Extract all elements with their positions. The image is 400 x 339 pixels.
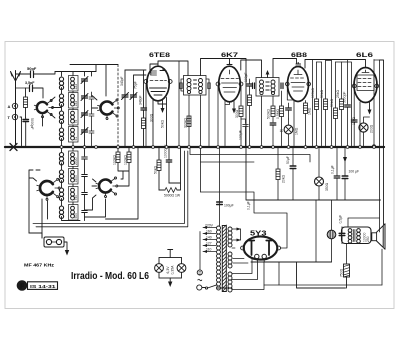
lamp 200 [359,123,368,132]
svg-text:50kΩ: 50kΩ [320,90,324,98]
wire array v7 [341,62,343,99]
resistor 300k [187,116,191,127]
tube 6K7 envelope [219,66,241,102]
arrowhead lamps [168,282,172,288]
wire T2 bottoms [262,96,274,146]
tube 6B8 pin left [286,82,290,86]
transformer secondary fil1 [228,252,232,268]
logo box [28,282,58,290]
svg-text:6B8: 6B8 [291,52,308,59]
ground bus wire [5,146,384,148]
wire 50k to bus [143,129,145,146]
wire trimmer column [84,81,86,146]
wire bus end corner [380,60,384,225]
transformer secondary fil2 [228,272,232,292]
svg-text:110: 110 [206,248,212,252]
svg-text:500: 500 [74,213,78,219]
ground symbol [10,144,17,151]
wire OT bottom [346,244,348,265]
wire 100uF right [344,162,346,200]
capacitor 50uF [290,166,296,169]
T2 primary coil [260,80,264,95]
wire a8 low [347,107,349,146]
mechanical link dashed [117,65,119,148]
tube 6K7 pin left [216,82,220,86]
svg-text:6,3V: 6,3V [166,266,170,274]
wire lamp [288,119,290,146]
tube 6TE8 cathode arrow [162,101,164,109]
svg-text:100 μF: 100 μF [349,170,360,174]
tube 6K7 inner [221,70,239,92]
trimmer 75pF [130,93,137,100]
capacitor bank col4 [89,92,94,146]
svg-text:6K7: 6K7 [221,52,239,59]
coil box L2c [69,110,79,126]
resistor 100k [248,95,252,106]
wire rail 162 [201,161,255,163]
output transformer core [353,230,355,242]
dial lamp right [177,264,186,273]
T1 cap left [180,83,182,89]
wire array v4 [325,61,327,100]
wire array v3 [321,62,323,146]
coil box L4d [69,205,79,221]
field arrow [344,147,346,157]
logo ring [17,281,26,290]
wire resistor [25,88,27,118]
wire a7 low [341,110,343,146]
coil unit enclosure [33,151,188,227]
svg-text:50kΩ: 50kΩ [161,120,165,128]
wire cap low [168,147,170,183]
AC rail [199,232,201,270]
wire 6TE8 cathode legs [144,64,159,146]
antenna [11,71,21,146]
coil box L4a [69,151,79,167]
svg-text:0,1μF: 0,1μF [247,201,251,210]
coil L3a [59,153,63,166]
svg-text:750Ω: 750Ω [340,268,344,277]
wire T2 sec to 6B8 cap [273,59,297,78]
wire B plus rail [246,147,381,200]
arrow HT b [237,239,242,242]
wire below-bus rails [190,147,310,226]
resistor 1M [304,103,308,114]
capacitor 100uF cathode [241,119,248,146]
coil L1c [59,111,63,124]
tube 5Y3 side pin right [277,246,281,250]
T1 core [194,80,197,88]
wire S2a left [29,170,40,233]
transformer core [222,225,226,292]
svg-text:0,5MΩ: 0,5MΩ [276,108,280,119]
svg-text:100μF: 100μF [239,130,243,140]
svg-text:100kΩ: 100kΩ [311,88,315,98]
band switch S1a [34,100,53,118]
svg-text:500kΩ: 500kΩ [267,109,271,119]
wire array v2 [316,62,318,99]
tube 5Y3 plate left [249,241,254,256]
wire 6L6 legs [354,88,360,146]
svg-text:50μF: 50μF [286,156,290,164]
resistor 0,5M [280,106,284,117]
capacitor 100uF psu [217,202,223,205]
tube 6TE8 dashes [150,80,167,82]
wire HT mid [232,229,241,248]
T1 cap right [208,83,210,89]
tube 6B8 envelope [288,67,309,102]
wire S2b links [85,179,122,217]
coil box L2b [69,93,79,109]
svg-text:350Ω: 350Ω [325,182,329,191]
svg-text:10: 10 [280,129,284,133]
lamp eye [284,125,293,134]
wire array v9 [317,61,352,146]
trimmer Ca [81,77,88,84]
speaker cone [377,224,385,249]
wire OT feed [348,218,380,227]
wire S2a drop [42,199,48,238]
wire cathode out [251,259,346,288]
svg-text:349pF: 349pF [139,95,143,105]
arrowhead [368,110,372,115]
band switch S1b [98,99,120,120]
svg-text:300Ω: 300Ω [235,109,239,118]
wire 50pF to coil bank [34,72,56,75]
trimmer Cb [81,94,88,101]
svg-text:1MΩ: 1MΩ [295,127,299,135]
output transformer secondary [357,229,361,243]
AC tilde [198,279,202,281]
svg-text:127: 127 [206,242,212,246]
tube 5Y3 plate right [266,241,271,256]
wire 5000 [159,147,181,190]
svg-text:5000Ω 1W: 5000Ω 1W [164,194,181,198]
svg-text:343pF: 343pF [120,76,124,86]
svg-text:0,35A: 0,35A [171,265,175,275]
tube 5Y3 filament pin a [255,254,259,258]
coil box L4c [69,187,79,203]
svg-text:100kΩ: 100kΩ [113,155,117,165]
wire 20k [277,147,279,200]
svg-text:1MΩ: 1MΩ [308,107,312,115]
wire cap to bus [25,118,27,146]
resistor a4 [324,99,328,110]
svg-text:200Ω: 200Ω [370,124,374,133]
capacitor electrolytic circle [327,230,336,239]
tube 6B8 inner [291,70,306,91]
svg-text:220V: 220V [205,224,214,228]
wire 01uF [336,147,338,200]
wire coil column 2 [72,91,74,146]
power switch [202,285,232,290]
resistor 5000 1W [165,188,177,193]
tube 6L6 inner [357,70,374,91]
wire 6TE8 plate down [158,98,167,146]
wire 750 down [346,277,348,288]
transformer primary winding [217,226,221,290]
dial lamp left [155,264,164,273]
IF transformer T1 box [184,76,207,96]
band switch S2b [96,177,118,198]
resistor a6 [334,108,338,119]
svg-text:25kΩ: 25kΩ [336,90,340,98]
terminal T [12,114,17,119]
resistor input [24,97,28,108]
wire 1M [305,101,307,146]
svg-text:6TE8: 6TE8 [149,52,171,59]
tube 5Y3 filament pin b [262,254,266,258]
resistor a7 [340,99,344,110]
wire A to 3.5pF [16,88,30,106]
resistor 20k [276,169,280,180]
capacitor col low a [82,147,88,221]
wire lamp feed [168,250,173,258]
coil L1b [59,94,63,107]
output transformer box [342,227,372,244]
wire capk [353,122,355,146]
capacitor 100uF grid [247,84,253,86]
wire resistor bank [118,147,129,186]
T2 secondary coil [271,80,275,95]
tube 6TE8 envelope [147,66,169,101]
resistor a2 [315,99,319,110]
capacitor 50pF [31,71,34,78]
svg-text:250: 250 [366,236,370,242]
tube 6TE8 pin left [144,80,148,84]
coil box L2d [69,127,79,143]
tube 6L6 pin right [375,84,379,88]
wire fil bottom [232,285,382,290]
wire a2 low [316,110,318,146]
wire to bus [272,125,274,146]
wire 500k down [272,117,274,123]
svg-text:300kΩ: 300kΩ [184,118,188,128]
capacitor 5000pF [270,123,276,125]
arrowhead [232,109,236,114]
tube 6TE8 pin right [168,80,172,84]
T2 cap left [253,83,255,89]
T1 primary coil [187,79,191,94]
capacitor 01uF [334,176,340,178]
coil L3c [59,188,63,201]
AC plug earth [197,270,202,275]
tube 6TE8 anode detail [150,69,167,96]
T2 core [266,82,269,90]
arrow HT a [237,228,242,231]
AC plug live [197,285,202,290]
svg-text:A: A [8,104,11,109]
svg-text:100μF: 100μF [224,204,234,208]
wire T1 tops [201,59,247,146]
svg-text:100kΩ: 100kΩ [124,155,128,165]
wire phono [29,233,67,250]
coil box L4b [69,169,79,185]
wire 100k to bus [249,106,251,146]
wire HT to 5Y3 [232,229,241,240]
svg-text:6L6: 6L6 [356,52,374,59]
wire coil column 1 [61,88,63,146]
coil L3d [59,206,63,219]
wire right col2 [374,60,380,232]
tube 6L6 cathode arrow [369,103,371,110]
tube 6TE8 grid detail [151,71,157,75]
speaker driver [372,233,377,241]
svg-text:50kΩ: 50kΩ [330,99,334,107]
wire lamp350 [318,147,320,200]
wire 50k low [158,147,160,190]
svg-text:2000: 2000 [74,157,78,165]
wire a6 low [335,119,337,146]
output transformer primary [348,229,352,243]
wire fil to 5Y3 [232,259,279,286]
tube 6B8 top cap [296,63,301,67]
wire array v1 [312,60,314,146]
svg-text:0,1μF: 0,1μF [331,165,335,174]
resistor 50k [142,118,146,129]
arrowhead up [266,70,270,75]
svg-text:IS 14-31: IS 14-31 [30,284,56,289]
tube 6K7 top cap [227,63,232,67]
svg-text:750: 750 [74,195,78,201]
junction [373,145,376,148]
resistor bank r2 [127,152,131,163]
svg-text:F: F [20,283,25,290]
svg-text:5000pF: 5000pF [30,118,34,130]
power transformer primary taps [203,226,216,253]
wire 300 [240,86,242,146]
tube 6K7 pin right [239,82,243,86]
lamp 350 [315,177,324,186]
svg-text:140: 140 [206,236,212,240]
wire array v6 [335,62,337,108]
arrowhead [161,108,165,113]
svg-text:50pF: 50pF [27,66,37,71]
wire 0,5M [281,91,283,146]
T2 cap right [281,83,283,89]
wire 50uF [292,147,294,200]
wire coil col2 low [72,147,74,205]
svg-text:100pF: 100pF [244,72,248,82]
tube 6TE8 top lead [158,61,188,76]
wire right col1 [373,60,375,146]
capacitor 0,5uF plates [339,233,345,235]
tube 6L6 pin left [352,84,356,88]
wire array v5 [331,61,333,146]
switch contact [205,287,207,289]
capacitor 349pF [141,108,147,110]
svg-text:MF 467 KHz: MF 467 KHz [24,263,55,268]
wire lamp down [169,278,171,282]
svg-text:5000pF: 5000pF [343,92,347,104]
wire inner box [85,147,139,219]
phono jack [44,237,64,247]
wire array v8 [347,60,349,105]
tube 6L6 envelope [354,68,377,103]
wire switch S1a to S1b [43,96,98,127]
wire 349pF column [143,70,145,118]
trimmer 343pF [122,93,129,100]
capacitor 5000pF [23,120,29,122]
IF transformer T2 box [256,78,279,97]
terminal T dot [14,116,16,118]
arrowhead phono [65,250,69,256]
resistor 50k low [157,160,161,171]
svg-text:20kΩ: 20kΩ [282,175,286,183]
trimmer Cc [81,111,88,118]
coil box L2a [69,76,79,92]
capacitor 3,5pF [30,85,33,92]
wire 75pF [125,70,146,146]
wire 6B8 legs [287,86,294,146]
tube 5Y3 side pin left [241,246,245,250]
wire T2 to 6K7 plate [241,60,262,78]
capacitor 5000pF b [286,108,292,110]
capacitor 100uF right [342,176,348,179]
wire electrolytic [331,200,333,262]
wire T down [20,117,22,146]
bus junctions [60,146,63,149]
wire T1 bottoms [181,79,209,146]
transformer secondary HT [228,227,232,247]
capacitor 0,5uF [339,227,345,244]
terminal A [12,103,17,108]
wire upper rail [70,65,118,97]
wire 6B8 plate top [305,60,366,69]
svg-text:3,5pF: 3,5pF [25,81,35,85]
resistor 500k [271,106,275,117]
trimmer Cd [81,128,88,135]
tube 5Y3 envelope [244,236,278,259]
T1 secondary coil [199,79,203,94]
resistor 750 [344,264,350,277]
svg-text:Irradio - Mod. 60 L6: Irradio - Mod. 60 L6 [71,271,150,282]
tube 6K7 cathode arrow [233,102,235,109]
svg-text:1500: 1500 [74,175,78,183]
wire 343pF [124,70,126,146]
coil L1d [59,128,63,141]
wire lamp200 [364,117,370,146]
capacitor 10000 low [166,160,171,162]
capacitor a8 [345,105,351,107]
terminal A dot [14,105,16,107]
wire coil bank top rail [55,72,96,77]
svg-text:50kΩ: 50kΩ [154,166,158,174]
wire screen rail low [315,200,317,262]
wire cap col [249,79,251,95]
wire cap b [288,103,290,119]
wire grid return [145,84,147,146]
coil L1a [59,77,63,90]
capacitor 6L6k [351,120,357,122]
resistor bank r1 [116,152,120,163]
wire 3.5pF to switch [33,88,44,98]
wire speaker return [381,249,383,285]
svg-text:0,5μF: 0,5μF [339,215,343,224]
svg-text:160: 160 [206,230,212,234]
wire coil col1 low [62,147,81,221]
wire 6K7 legs [218,86,230,146]
dial lamp box [159,258,182,279]
wire staircase to 5Y3 [201,192,288,248]
T2 top arrow [267,73,269,78]
wire a4 low [325,110,327,146]
svg-text:75pF: 75pF [134,81,138,89]
wire antenna to 50pF [16,73,31,75]
wire screen drop [178,61,180,146]
band switch S2a [37,178,60,200]
resistor 300 [239,106,243,117]
